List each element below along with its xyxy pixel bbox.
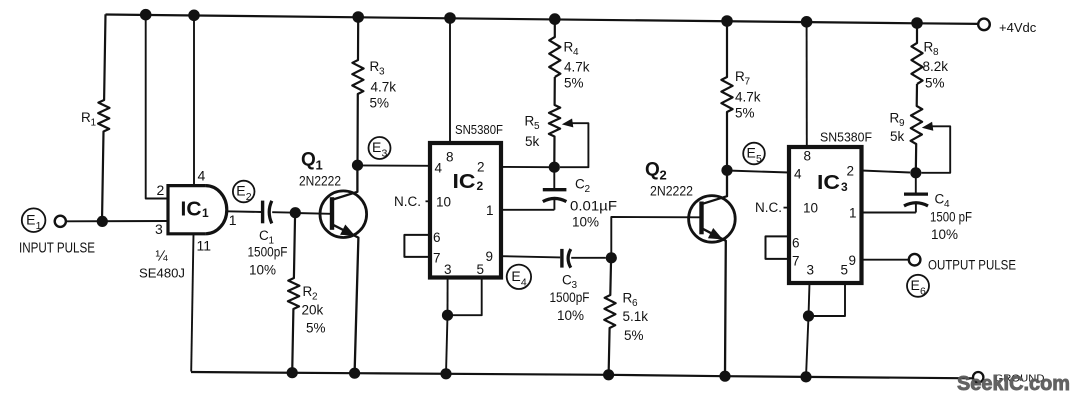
svg-text:5%: 5% [735, 106, 755, 121]
svg-text:10: 10 [436, 195, 451, 210]
svg-text:10%: 10% [557, 308, 584, 323]
svg-text:5: 5 [756, 153, 762, 165]
svg-text:3: 3 [382, 148, 388, 160]
svg-text:3: 3 [379, 67, 385, 78]
svg-text:5k: 5k [525, 134, 540, 149]
svg-text:IC: IC [453, 171, 476, 193]
svg-text:7: 7 [745, 77, 751, 88]
svg-text:6: 6 [632, 298, 638, 309]
svg-text:6: 6 [920, 285, 926, 297]
svg-text:5.1k: 5.1k [623, 309, 649, 324]
svg-text:1: 1 [229, 212, 237, 228]
svg-text:SN5380F: SN5380F [820, 131, 872, 145]
svg-text:8: 8 [804, 149, 812, 164]
svg-text:2: 2 [246, 191, 252, 203]
svg-text:2: 2 [847, 164, 855, 179]
svg-text:3: 3 [444, 262, 452, 277]
svg-text:1500pF: 1500pF [550, 290, 590, 305]
svg-text:¼: ¼ [156, 249, 169, 265]
svg-text:5%: 5% [624, 328, 644, 343]
svg-text:2: 2 [585, 184, 591, 195]
svg-text:C: C [562, 273, 572, 288]
svg-text:1: 1 [202, 206, 209, 220]
svg-text:E: E [747, 145, 756, 161]
svg-text:R: R [370, 59, 380, 74]
svg-text:1: 1 [486, 203, 494, 218]
svg-text:1500 pF: 1500 pF [930, 210, 972, 225]
svg-text:2: 2 [660, 168, 667, 183]
svg-text:5%: 5% [370, 96, 390, 111]
svg-text:9: 9 [899, 118, 905, 129]
svg-text:7: 7 [792, 254, 800, 269]
svg-text:4: 4 [198, 168, 206, 184]
svg-text:10%: 10% [249, 263, 276, 278]
svg-text:4.7k: 4.7k [564, 60, 590, 75]
svg-text:1: 1 [36, 220, 42, 232]
svg-text:5%: 5% [306, 321, 326, 336]
svg-text:2: 2 [477, 179, 484, 193]
svg-text:E: E [236, 183, 245, 199]
svg-text:N.C.: N.C. [755, 200, 782, 215]
svg-text:C: C [575, 177, 585, 192]
svg-text:11: 11 [197, 238, 212, 254]
svg-text:20k: 20k [302, 303, 324, 318]
svg-text:5: 5 [477, 262, 485, 277]
svg-text:2: 2 [157, 182, 165, 198]
svg-text:3: 3 [807, 263, 815, 278]
svg-text:Q: Q [645, 160, 660, 181]
svg-text:1: 1 [316, 158, 323, 173]
svg-text:2: 2 [312, 292, 318, 303]
svg-text:1: 1 [91, 118, 97, 129]
svg-text:INPUT PULSE: INPUT PULSE [19, 239, 95, 256]
svg-text:3: 3 [155, 221, 163, 237]
svg-text:6: 6 [792, 236, 800, 251]
svg-text:8.2k: 8.2k [923, 59, 949, 74]
svg-text:SN5380F: SN5380F [455, 123, 503, 137]
svg-text:5: 5 [841, 263, 849, 278]
svg-text:R: R [525, 114, 535, 129]
svg-text:4: 4 [573, 47, 579, 58]
svg-text:5%: 5% [564, 76, 584, 91]
svg-text:6: 6 [433, 230, 441, 245]
svg-text:E: E [911, 277, 920, 293]
svg-text:E: E [372, 139, 381, 155]
svg-text:2N2222: 2N2222 [650, 184, 693, 199]
svg-text:IC: IC [181, 199, 202, 221]
svg-text:5k: 5k [890, 129, 905, 144]
svg-text:R: R [623, 291, 633, 306]
svg-text:5: 5 [534, 121, 540, 132]
svg-text:C: C [259, 228, 269, 243]
svg-text:R: R [564, 40, 574, 55]
svg-text:Q: Q [301, 150, 316, 171]
svg-text:1500pF: 1500pF [248, 245, 288, 260]
svg-text:2N2222: 2N2222 [299, 174, 341, 189]
svg-text:10: 10 [803, 201, 818, 216]
svg-text:5%: 5% [925, 76, 945, 91]
svg-text:R: R [81, 110, 91, 125]
svg-text:10%: 10% [572, 215, 599, 230]
svg-text:8: 8 [933, 47, 939, 58]
svg-text:8: 8 [446, 150, 454, 165]
svg-text:N.C.: N.C. [394, 194, 421, 209]
svg-text:2: 2 [477, 160, 485, 175]
svg-text:R: R [890, 111, 900, 126]
svg-text:4: 4 [521, 276, 527, 288]
svg-text:7: 7 [433, 251, 441, 266]
svg-text:9: 9 [849, 253, 857, 268]
svg-text:IC: IC [817, 172, 840, 194]
svg-text:4.7k: 4.7k [735, 90, 761, 105]
svg-text:R: R [735, 69, 745, 84]
svg-text:4: 4 [435, 161, 443, 176]
svg-text:SE480J: SE480J [139, 266, 185, 281]
svg-text:E: E [26, 211, 35, 227]
svg-text:9: 9 [486, 249, 494, 264]
svg-text:3: 3 [841, 180, 848, 194]
svg-text:E: E [511, 268, 520, 284]
svg-text:1: 1 [849, 206, 857, 221]
svg-text:OUTPUT PULSE: OUTPUT PULSE [928, 257, 1016, 272]
svg-text:10%: 10% [931, 227, 958, 242]
svg-text:4.7k: 4.7k [371, 80, 397, 95]
svg-text:4: 4 [944, 199, 950, 210]
svg-text:SeekIC.com: SeekIC.com [957, 372, 1070, 395]
svg-text:R: R [303, 284, 313, 299]
svg-text:R: R [924, 40, 934, 55]
svg-text:0.01µF: 0.01µF [570, 199, 617, 214]
svg-text:C: C [935, 192, 945, 207]
svg-text:4: 4 [794, 167, 802, 182]
svg-text:+4Vdc: +4Vdc [999, 20, 1037, 35]
